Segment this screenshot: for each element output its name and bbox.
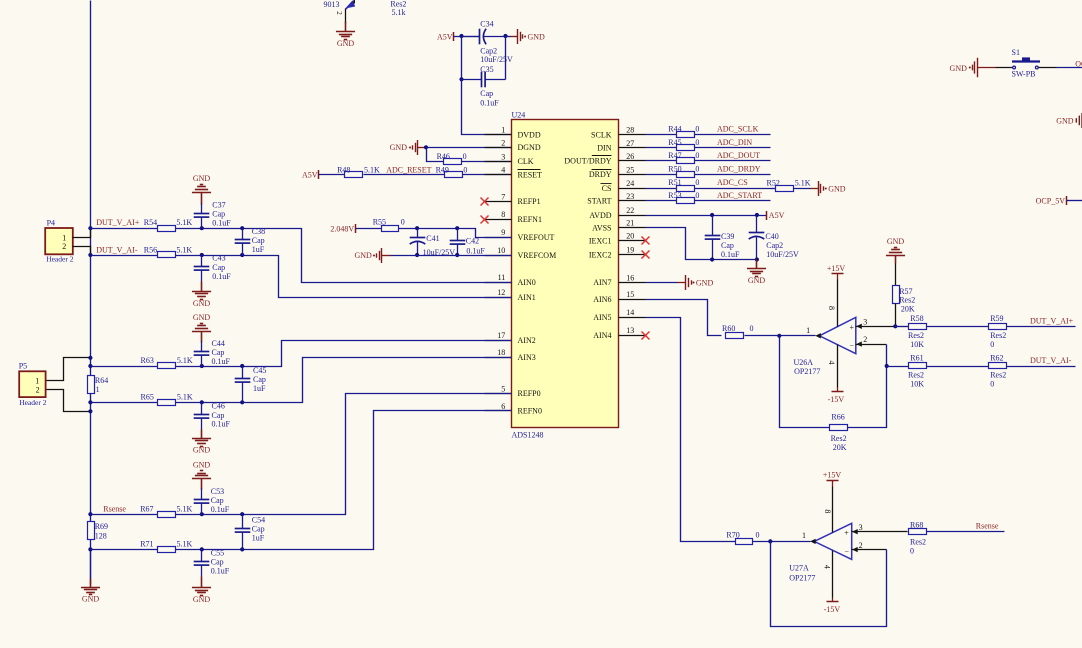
svg-text:Cap2: Cap2 <box>766 241 783 250</box>
wire pin 14 AIN5 to R70 <box>646 318 736 542</box>
wire R49 to pin 4 RESET <box>463 174 512 176</box>
svg-text:C38: C38 <box>252 227 265 236</box>
svg-text:Cap: Cap <box>253 375 266 384</box>
svg-text:2: 2 <box>501 138 505 147</box>
wire R68 to net Rsense <box>927 531 1005 533</box>
svg-text:0: 0 <box>463 165 467 174</box>
junction <box>88 356 92 360</box>
svg-text:7: 7 <box>501 192 505 201</box>
power port -15V for U26A <box>837 345 839 388</box>
svg-text:AVSS: AVSS <box>592 224 611 233</box>
wire pin to R50 <box>646 174 677 176</box>
svg-text:AIN4: AIN4 <box>593 331 611 340</box>
svg-text:GND: GND <box>1056 116 1074 125</box>
svg-text:Cap: Cap <box>252 525 265 534</box>
svg-text:18: 18 <box>497 348 505 357</box>
svg-text:2: 2 <box>62 242 66 251</box>
svg-text:DGND: DGND <box>518 143 541 152</box>
resistor R64 1 vertical <box>88 376 95 394</box>
junction <box>885 364 889 368</box>
svg-text:5.1K: 5.1K <box>177 505 193 514</box>
svg-text:+: + <box>849 323 854 332</box>
junction <box>424 145 428 149</box>
svg-text:−: − <box>849 341 854 350</box>
svg-text:OP2177: OP2177 <box>794 367 820 376</box>
capacitor C34 Cap2 10uF/25V <box>462 36 480 38</box>
wire R65 to AIN3 route <box>176 358 512 403</box>
svg-text:22: 22 <box>626 206 634 215</box>
svg-text:GND: GND <box>696 278 714 287</box>
svg-text:Res2: Res2 <box>990 371 1006 380</box>
svg-text:REFP1: REFP1 <box>518 197 541 206</box>
svg-text:Cap: Cap <box>211 558 224 567</box>
svg-text:GND: GND <box>390 143 408 152</box>
wire left vertical rail from top to bottom GND <box>90 1 92 585</box>
svg-text:8: 8 <box>827 306 836 310</box>
svg-text:10uF/25V: 10uF/25V <box>766 250 799 259</box>
svg-text:1uF: 1uF <box>253 384 266 393</box>
wire R56 to AIN1 route <box>176 256 512 298</box>
resistor R55 0 <box>382 226 399 232</box>
wire R50 to net label ADC_DRDY <box>695 174 771 176</box>
svg-text:5.1K: 5.1K <box>176 245 192 254</box>
resistor R50 0 <box>677 172 695 178</box>
U24 right pin 28 SCLK <box>619 134 646 136</box>
svg-text:-15V: -15V <box>824 605 841 614</box>
svg-text:GND: GND <box>828 184 846 193</box>
wire R70 to U27A output <box>753 541 811 543</box>
svg-text:R48: R48 <box>337 165 350 174</box>
svg-text:DVDD: DVDD <box>518 130 541 139</box>
svg-text:R44: R44 <box>668 125 681 134</box>
svg-text:0.1uF: 0.1uF <box>466 247 485 256</box>
wire R63 to AIN2 route <box>176 341 512 367</box>
wire R57 to + input node <box>895 304 897 327</box>
svg-text:DUT_V_AI-: DUT_V_AI- <box>1030 356 1072 365</box>
svg-text:10uF/25V: 10uF/25V <box>480 55 513 64</box>
svg-text:U27A: U27A <box>789 564 809 573</box>
ground GND below C43 <box>192 282 211 300</box>
junction <box>893 324 897 328</box>
resistor R66 Res2 20K <box>830 425 848 431</box>
junction <box>88 364 92 368</box>
svg-text:SCLK: SCLK <box>591 131 612 140</box>
U24 left pin 5 REFP0 <box>485 393 512 395</box>
capacitor C43 Cap 0.1uF <box>201 256 203 267</box>
capacitor C42 0.1uF <box>457 229 459 241</box>
junction <box>200 253 204 257</box>
wire R46 to pin 3 CLK <box>462 161 512 163</box>
connector P4 Header 2 <box>45 228 73 254</box>
resistor R51 0 <box>677 186 695 192</box>
U24 right pin 16 AIN7 <box>619 282 646 284</box>
capacitor C44 Cap 0.1uF <box>201 342 203 352</box>
svg-text:AIN1: AIN1 <box>518 293 536 302</box>
U26A output pin 1 arrow <box>815 333 821 338</box>
svg-text:C44: C44 <box>212 339 225 348</box>
wire rail to R63 <box>91 366 158 368</box>
svg-text:5.1K: 5.1K <box>795 178 811 187</box>
svg-text:13: 13 <box>626 326 634 335</box>
wire C34 to GND <box>506 36 511 38</box>
wire R44 to net label ADC_SCLK <box>695 134 771 136</box>
svg-text:0: 0 <box>695 191 699 200</box>
connector P5 Header 2 <box>19 371 45 397</box>
wire down to U24 pin 1 DVDD <box>462 80 512 135</box>
svg-text:C42: C42 <box>466 237 479 246</box>
svg-text:R51: R51 <box>668 178 681 187</box>
op-amp U27A OP2177 <box>814 523 852 559</box>
svg-text:1: 1 <box>501 126 505 135</box>
wire junction down to R46 <box>427 148 444 162</box>
svg-text:R67: R67 <box>140 505 153 514</box>
svg-text:5.1K: 5.1K <box>364 165 380 174</box>
no-connect X on pin 19 <box>642 251 650 259</box>
svg-text:R62: R62 <box>990 354 1003 363</box>
svg-text:6: 6 <box>501 402 505 411</box>
svg-text:0.1uF: 0.1uF <box>721 250 740 259</box>
U24 right pin 19 IEXC2 <box>619 254 646 256</box>
svg-text:0.1uF: 0.1uF <box>212 272 231 281</box>
svg-text:GND: GND <box>193 446 211 455</box>
svg-text:0: 0 <box>990 380 994 389</box>
svg-text:Res2: Res2 <box>831 434 847 443</box>
wire R71 to REFN0 route <box>176 411 512 550</box>
wire pin 15 AIN6 to R60 <box>646 300 722 336</box>
U24 right pin 20 IEXC1 <box>619 240 646 242</box>
junction <box>240 226 244 230</box>
svg-text:2.048V: 2.048V <box>330 224 354 233</box>
U26A - input pin 2 <box>856 344 887 346</box>
svg-text:2: 2 <box>863 335 867 344</box>
resistor R68 Res2 0 <box>909 529 927 535</box>
svg-text:4: 4 <box>823 565 832 569</box>
svg-text:GND: GND <box>193 313 211 322</box>
junction <box>755 213 759 217</box>
svg-text:Header 2: Header 2 <box>19 398 47 407</box>
svg-text:OCP_5V: OCP_5V <box>1036 196 1066 205</box>
svg-text:U24: U24 <box>512 110 526 119</box>
junction <box>200 400 204 404</box>
svg-text:1: 1 <box>35 377 39 386</box>
wire pin to R51 <box>646 188 677 190</box>
svg-text:GND: GND <box>887 237 905 246</box>
svg-text:16: 16 <box>626 273 634 282</box>
U27A - input pin 2 <box>852 549 887 551</box>
power port -15V for U27A <box>832 551 834 598</box>
U24 left pin 12 AIN1 <box>485 297 512 299</box>
svg-text:R46: R46 <box>437 152 450 161</box>
svg-text:VREFOUT: VREFOUT <box>518 233 555 242</box>
svg-text:0.1uF: 0.1uF <box>480 99 499 108</box>
svg-text:VREFCOM: VREFCOM <box>518 251 557 260</box>
junction <box>755 257 759 261</box>
svg-text:26: 26 <box>626 152 634 161</box>
svg-text:A5V: A5V <box>769 211 785 220</box>
junction <box>200 547 204 551</box>
svg-text:19: 19 <box>626 246 634 255</box>
svg-text:Cap: Cap <box>212 263 225 272</box>
svg-text:+15V: +15V <box>823 471 842 480</box>
svg-text:1: 1 <box>802 531 806 540</box>
svg-text:12: 12 <box>497 288 505 297</box>
junction <box>459 34 463 38</box>
resistor R53 0 <box>677 198 695 204</box>
svg-text:15: 15 <box>626 290 634 299</box>
svg-text:3: 3 <box>859 523 863 532</box>
svg-text:Res2: Res2 <box>990 331 1006 340</box>
svg-text:C40: C40 <box>765 232 778 241</box>
svg-text:8: 8 <box>501 210 505 219</box>
svg-text:8: 8 <box>823 509 832 513</box>
svg-text:R71: R71 <box>140 540 153 549</box>
svg-text:Cap: Cap <box>212 210 225 219</box>
junction <box>200 512 204 516</box>
svg-text:C54: C54 <box>252 516 265 525</box>
svg-text:ADS1248: ADS1248 <box>512 430 544 439</box>
no-connect X on pin 7 <box>481 198 489 206</box>
resistor R47 0 <box>677 158 695 164</box>
svg-text:10: 10 <box>497 246 505 255</box>
ground GND below C40 <box>747 260 766 277</box>
svg-text:2: 2 <box>335 11 343 15</box>
junction <box>240 253 244 257</box>
svg-text:RESET: RESET <box>518 170 543 179</box>
svg-text:21: 21 <box>626 219 634 228</box>
svg-text:Rsense: Rsense <box>103 505 126 514</box>
svg-text:1: 1 <box>806 326 810 335</box>
svg-text:Res2: Res2 <box>910 538 926 547</box>
junction <box>240 364 244 368</box>
wire R54 to AIN0 route <box>176 229 512 283</box>
svg-text:R55: R55 <box>373 218 386 227</box>
junction <box>415 226 419 230</box>
ground GND below transistor <box>336 22 355 40</box>
resistor R49 0 <box>445 172 463 178</box>
svg-text:4: 4 <box>827 361 836 365</box>
resistor R65 5.1K <box>158 400 176 406</box>
wire R53 to net label ADC_START <box>695 200 771 202</box>
svg-text:C34: C34 <box>480 20 493 29</box>
svg-text:R49: R49 <box>436 165 449 174</box>
capacitor C45 Cap 1uF <box>242 367 244 379</box>
svg-text:IEXC2: IEXC2 <box>589 251 612 260</box>
no-connect X on pin 8 <box>481 216 489 224</box>
capacitor C35 Cap 0.1uF <box>462 79 482 81</box>
svg-text:R64: R64 <box>95 376 108 385</box>
wire GND to pin 10 VREFCOM <box>382 255 391 257</box>
svg-text:ADC_START: ADC_START <box>717 191 762 200</box>
ground GND above R57 <box>886 248 905 264</box>
wire GND to pin 2 DGND <box>418 147 427 149</box>
svg-text:2: 2 <box>859 541 863 550</box>
svg-text:ADC_RESET: ADC_RESET <box>386 165 431 174</box>
svg-text:28: 28 <box>626 126 634 135</box>
wire P5 pin 2 down to lower net <box>47 390 91 412</box>
wire R48 to R49 with net label ADC_RESET <box>364 174 445 176</box>
wire R55 to pin 9 VREFOUT with jog <box>399 229 512 238</box>
wire pin 16 AIN7 to GND <box>646 282 678 284</box>
U24 right pin 15 AIN6 <box>619 299 646 301</box>
wire 2.048V to R55 <box>356 228 382 230</box>
svg-text:-15V: -15V <box>828 395 845 404</box>
svg-text:OP2177: OP2177 <box>789 573 815 582</box>
junction <box>777 334 781 338</box>
svg-text:Cap: Cap <box>212 411 225 420</box>
resistor R71 5.1K <box>158 547 176 553</box>
wire R59 to net DUT_V_AI+ <box>1007 326 1076 328</box>
ground GND right of R52 <box>819 181 824 196</box>
resistor R62 Res2 0 <box>989 363 1007 369</box>
svg-text:0: 0 <box>910 546 914 555</box>
svg-text:R52: R52 <box>767 178 780 187</box>
svg-text:DUT_V_AI+: DUT_V_AI+ <box>96 218 140 227</box>
wire DUT_V_AI- from rail to R56 <box>91 255 158 257</box>
ground GND below C55 <box>192 577 211 596</box>
capacitor C53 Cap 0.1uF <box>201 489 203 500</box>
svg-text:AIN0: AIN0 <box>518 278 536 287</box>
svg-text:4: 4 <box>501 166 505 175</box>
no-connect X on pin 20 <box>642 237 650 245</box>
ground GND above C53 <box>192 471 211 490</box>
svg-text:0: 0 <box>695 151 699 160</box>
svg-text:R66: R66 <box>831 412 844 421</box>
svg-text:DRDY: DRDY <box>589 170 612 179</box>
svg-text:GND: GND <box>193 595 211 604</box>
U24 left pin 18 AIN3 <box>485 357 512 359</box>
wire R62 to net DUT_V_AI- <box>1007 366 1076 368</box>
resistor R59 Res2 0 <box>989 324 1007 330</box>
junction <box>710 257 714 261</box>
svg-text:AIN6: AIN6 <box>593 295 611 304</box>
svg-text:DUT_V_AI-: DUT_V_AI- <box>96 245 138 254</box>
svg-text:ADC_DIN: ADC_DIN <box>717 138 752 147</box>
svg-text:Res2: Res2 <box>908 371 924 380</box>
svg-text:R56: R56 <box>144 245 157 254</box>
svg-text:AIN7: AIN7 <box>593 278 611 287</box>
junction <box>200 364 204 368</box>
svg-text:C53: C53 <box>211 487 224 496</box>
wire R52 to GND <box>794 188 811 190</box>
resistor R52 5.1K <box>771 188 776 190</box>
wire R61 to R62 <box>927 366 989 368</box>
capacitor C40 Cap2 10uF/25V <box>756 216 758 233</box>
junction <box>710 213 714 217</box>
svg-text:10K: 10K <box>910 380 924 389</box>
svg-text:1uF: 1uF <box>252 534 265 543</box>
U24 right pin 27 DIN <box>619 147 646 149</box>
svg-text:5: 5 <box>501 384 505 393</box>
transistor 9013 emitter fragment <box>345 0 355 9</box>
svg-text:GND: GND <box>193 460 211 469</box>
svg-text:R65: R65 <box>141 392 154 401</box>
svg-text:20K: 20K <box>833 443 847 452</box>
resistor R63 5.1K <box>158 363 176 369</box>
wire transistor emitter to ground <box>345 9 347 24</box>
resistor R44 0 <box>677 132 695 138</box>
resistor R57 Res2 20K vertical <box>893 286 900 304</box>
capacitor C37 Cap 0.1uF <box>201 204 203 214</box>
resistor R46 0 <box>444 159 462 165</box>
wire R67 to REFP0 route <box>176 394 512 515</box>
svg-text:0: 0 <box>695 138 699 147</box>
svg-text:0: 0 <box>463 152 467 161</box>
svg-text:+15V: +15V <box>827 264 846 273</box>
capacitor C55 Cap 0.1uF <box>201 550 203 562</box>
svg-text:U26A: U26A <box>794 358 814 367</box>
svg-text:Cap: Cap <box>252 236 265 245</box>
svg-text:DIN: DIN <box>597 144 611 153</box>
wire pin 22 AVDD to A5V port <box>646 215 767 217</box>
svg-text:S1: S1 <box>1012 48 1020 57</box>
svg-text:17: 17 <box>497 331 505 340</box>
svg-text:Cap: Cap <box>211 496 224 505</box>
wire rail to R67 with Rsense label <box>91 514 158 516</box>
wire A5V junction down to C35 <box>461 37 463 80</box>
svg-text:0.1uF: 0.1uF <box>212 218 231 227</box>
junction <box>455 226 459 230</box>
U27A output pin 1 arrow <box>810 539 816 544</box>
svg-text:ADC_DOUT: ADC_DOUT <box>717 151 760 160</box>
svg-text:R45: R45 <box>668 138 681 147</box>
junction <box>200 226 204 230</box>
resistor R56 5.1K <box>158 252 176 258</box>
svg-text:SW-PB: SW-PB <box>1012 70 1036 79</box>
U24 left pin 11 AIN0 <box>485 282 512 284</box>
svg-text:5.1K: 5.1K <box>176 218 192 227</box>
svg-text:0: 0 <box>756 531 760 540</box>
svg-text:Res2: Res2 <box>899 295 915 304</box>
svg-text:2: 2 <box>36 385 40 394</box>
svg-text:0.1uF: 0.1uF <box>212 420 231 429</box>
U24 right pin 21 AVSS <box>619 227 646 229</box>
svg-text:C46: C46 <box>212 402 225 411</box>
svg-text:C41: C41 <box>426 234 439 243</box>
svg-text:20K: 20K <box>901 304 915 313</box>
svg-text:C43: C43 <box>212 253 225 262</box>
U24 left pin 6 REFN0 <box>485 410 512 412</box>
svg-text:AIN5: AIN5 <box>593 313 611 322</box>
svg-text:5.1K: 5.1K <box>177 356 193 365</box>
wire rail to R65 <box>91 402 158 404</box>
U24 right pin 14 AIN5 <box>619 317 646 319</box>
wire P4 pin 2 to DUT_V_AI- net <box>73 247 91 255</box>
svg-text:R68: R68 <box>910 521 923 530</box>
svg-text:AIN3: AIN3 <box>518 353 536 362</box>
svg-text:R70: R70 <box>726 531 739 540</box>
resistor R70 0 <box>736 539 753 545</box>
op-amp U26A OP2177 <box>819 317 855 353</box>
svg-text:0: 0 <box>750 324 754 333</box>
svg-text:DOUT/DRDY: DOUT/DRDY <box>564 157 611 166</box>
svg-text:0: 0 <box>695 125 699 134</box>
wire GND to S1 <box>978 67 996 69</box>
ground GND right of C34 <box>518 29 523 44</box>
svg-text:AIN2: AIN2 <box>518 336 536 345</box>
svg-text:9013: 9013 <box>324 0 340 9</box>
wire node to R58 <box>896 326 910 328</box>
svg-text:128: 128 <box>95 532 107 541</box>
svg-text:A5V: A5V <box>302 171 318 180</box>
svg-text:AVDD: AVDD <box>589 211 611 220</box>
svg-text:R47: R47 <box>668 151 681 160</box>
svg-text:Cap: Cap <box>721 241 734 250</box>
svg-text:R60: R60 <box>722 324 735 333</box>
resistor R58 Res2 10K <box>909 324 927 330</box>
svg-text:5.1K: 5.1K <box>177 392 193 401</box>
junction <box>88 512 92 516</box>
svg-text:C39: C39 <box>721 232 734 241</box>
